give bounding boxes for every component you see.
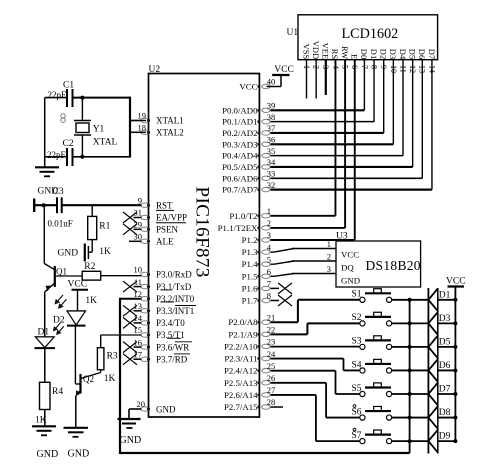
svg-text:D9: D9	[439, 432, 451, 442]
wire U2 P2.4/A12 to switch S5	[271, 370, 336, 372]
svg-text:D0: D0	[359, 49, 369, 59]
svg-text:GND: GND	[68, 449, 90, 460]
wire Q1 emitter to LED D1	[44, 292, 46, 337]
wire XTAL top net (C1/Y1 to XTAL1)	[45, 97, 66, 99]
U2 pin 4 P1.3	[262, 250, 270, 254]
decorative squiggle near crystal	[61, 114, 65, 118]
svg-text:VEE: VEE	[321, 43, 331, 60]
diode D6	[428, 359, 437, 370]
svg-text:D5: D5	[439, 337, 451, 347]
svg-text:2: 2	[327, 252, 331, 262]
svg-text:1: 1	[327, 239, 331, 249]
wire LCD pin 2 VDD stub	[315, 60, 317, 99]
svg-text:40: 40	[267, 77, 276, 87]
svg-text:17: 17	[134, 349, 143, 359]
D1 emitter arrows	[54, 323, 60, 330]
D2 receiver arrows	[56, 295, 63, 303]
svg-text:P2.6/A14: P2.6/A14	[224, 390, 258, 400]
op-amp U2 PIC16F873 microcontroller body	[149, 74, 260, 418]
node RST junction	[42, 203, 46, 207]
wire U2 P0.7/AD7 to LCD D7	[271, 189, 432, 191]
svg-text:33: 33	[267, 168, 276, 178]
svg-text:1K: 1K	[85, 296, 97, 306]
svg-text:23: 23	[267, 337, 276, 347]
svg-text:P1.4: P1.4	[242, 259, 258, 269]
U2 pin 23 P2.2/A10	[262, 344, 270, 348]
U2 pin 10 P3.0/RxD	[141, 272, 149, 276]
svg-text:30: 30	[134, 232, 143, 242]
ground GND at pin 20	[118, 418, 141, 420]
wire R4 to ground	[44, 410, 46, 427]
svg-text:18: 18	[138, 123, 147, 133]
U2 pin 1 P1.0/T2	[262, 214, 270, 218]
svg-text:P3.3/INT1: P3.3/INT1	[156, 306, 194, 316]
svg-text:0.01uF: 0.01uF	[48, 218, 73, 228]
svg-text:EA/VPP: EA/VPP	[156, 213, 187, 223]
svg-text:7: 7	[267, 279, 271, 289]
svg-text:37: 37	[267, 123, 276, 133]
U2 pin 36 P0.3/AD3	[262, 142, 270, 146]
svg-text:C3: C3	[53, 187, 64, 197]
wire U2 P1.3 to DS18B20 pin 1	[271, 251, 275, 253]
svg-text:P0.1/AD1: P0.1/AD1	[222, 117, 257, 127]
U2 pin 37 P0.2/AD2	[262, 131, 270, 135]
wire Q1 base to R2	[55, 275, 82, 277]
U2 pin 27 P2.6/A14	[262, 393, 270, 397]
svg-text:XTAL: XTAL	[93, 137, 118, 147]
U2 pin 22 P2.1/A9	[262, 332, 270, 336]
wire U2 P0.2/AD2 to LCD D2	[271, 132, 384, 134]
svg-text:16: 16	[134, 337, 143, 347]
svg-text:21: 21	[267, 312, 276, 322]
diode D1	[428, 289, 437, 300]
wire LCD E to U2 P1.2	[354, 60, 356, 240]
svg-text:24: 24	[267, 349, 276, 359]
svg-text:VCC: VCC	[239, 82, 257, 92]
ground GND under R4	[32, 425, 56, 427]
svg-text:34: 34	[267, 157, 276, 167]
svg-text:GND: GND	[341, 276, 360, 286]
power VCC at U2 pin 40	[267, 86, 282, 88]
wire U2 P0.4/AD4 to LCD D4	[271, 155, 404, 157]
svg-text:P0.6/AD6: P0.6/AD6	[222, 173, 258, 183]
U2 pin 18 XTAL2	[141, 130, 149, 134]
wire Q1 collector to RST net	[43, 205, 45, 263]
node crystal top junction	[80, 96, 84, 100]
wire LCD RS to U2 P1.0	[334, 60, 336, 216]
svg-text:5: 5	[267, 254, 271, 264]
capacitor C1	[66, 89, 68, 107]
svg-text:1K: 1K	[99, 247, 111, 257]
svg-text:C2: C2	[63, 139, 74, 149]
svg-text:35: 35	[267, 146, 276, 156]
wire U2 P2.0/A8 to switch S1	[271, 321, 298, 323]
wire U2 P0.3/AD3 to LCD D3	[271, 143, 394, 145]
svg-text:D4: D4	[398, 49, 408, 60]
svg-text:20: 20	[137, 399, 146, 409]
svg-text:R3: R3	[107, 352, 118, 362]
svg-text:P3.6/WR: P3.6/WR	[156, 342, 189, 352]
svg-text:Q1: Q1	[56, 267, 67, 277]
svg-text:19: 19	[138, 111, 147, 121]
U2 pin 24 P2.3/A11	[262, 356, 270, 360]
svg-text:P0.7/AD7: P0.7/AD7	[222, 185, 258, 195]
svg-text:3: 3	[267, 230, 271, 240]
svg-text:8: 8	[267, 291, 271, 301]
svg-text:10: 10	[134, 265, 143, 275]
svg-text:25: 25	[267, 361, 276, 371]
svg-text:12: 12	[134, 289, 143, 299]
wire diode anode base line	[437, 288, 439, 454]
svg-text:XTAL2: XTAL2	[156, 128, 184, 138]
svg-text:VDD: VDD	[311, 41, 321, 59]
svg-text:39: 39	[267, 101, 276, 111]
svg-text:VCC: VCC	[446, 277, 466, 287]
svg-text:6: 6	[267, 267, 271, 277]
diode D8	[428, 406, 437, 417]
svg-text:P2.3/A11: P2.3/A11	[224, 354, 257, 364]
wire U2 P2.1/A9 to switch S2	[271, 333, 308, 335]
U2 pin 21 P2.0/A8	[262, 320, 270, 324]
svg-text:D1: D1	[439, 290, 451, 300]
svg-text:38: 38	[267, 112, 276, 122]
U2 pin 17 P3.7/RD	[141, 357, 149, 361]
svg-text:DQ: DQ	[341, 263, 354, 273]
wire U2 P0.6/AD6 to LCD D6	[271, 177, 423, 179]
svg-text:P1.2: P1.2	[242, 235, 258, 245]
svg-text:P2.1/A9: P2.1/A9	[228, 329, 258, 339]
svg-text:R4: R4	[52, 387, 63, 397]
svg-text:P0.3/AD3: P0.3/AD3	[222, 139, 258, 149]
svg-text:XTAL1: XTAL1	[156, 116, 184, 126]
svg-text:VCC: VCC	[341, 250, 359, 260]
svg-text:RST: RST	[156, 200, 173, 210]
U2 pin 16 P3.6/WR	[141, 345, 149, 349]
svg-text:P0.5/AD5: P0.5/AD5	[222, 162, 258, 172]
svg-text:C1: C1	[63, 81, 74, 91]
resistor R4	[40, 382, 51, 409]
svg-text:RS: RS	[330, 49, 340, 60]
wire U2 P1.5 to DS18B20 pin 3	[271, 275, 275, 277]
svg-text:14: 14	[134, 313, 143, 323]
U2 pin 13 P3.3/INT1	[141, 309, 149, 313]
wire U2 P2.3/A11 to switch S4	[271, 358, 344, 360]
svg-text:P1.1/T2EX: P1.1/T2EX	[218, 223, 258, 233]
wire LCD pin 1 VSS stub	[306, 60, 308, 99]
capacitor C2	[66, 148, 68, 166]
svg-text:R2: R2	[84, 262, 95, 272]
wire LCD RW to U2 P1.1	[344, 60, 346, 228]
svg-text:ALE: ALE	[156, 237, 174, 247]
svg-text:R1: R1	[99, 222, 110, 232]
svg-text:P1.6: P1.6	[242, 283, 258, 293]
U2 pin 12 P3.2/INT0	[141, 297, 149, 301]
svg-text:26: 26	[267, 373, 276, 383]
wire LCD pin 3 VEE stub	[325, 60, 327, 95]
svg-text:E: E	[350, 54, 360, 59]
svg-text:P2.7/A15: P2.7/A15	[224, 402, 258, 412]
U2 pin 25 P2.4/A12	[262, 368, 270, 372]
transistor Q1	[54, 266, 56, 287]
svg-text:Y1: Y1	[93, 125, 105, 135]
svg-text:D3: D3	[388, 49, 398, 59]
diode D5	[428, 336, 437, 347]
wire switch common bus	[409, 300, 411, 453]
svg-text:P3.4/T0: P3.4/T0	[156, 318, 185, 328]
svg-text:P1.5: P1.5	[242, 271, 258, 281]
svg-text:D6: D6	[417, 49, 427, 59]
svg-text:D7: D7	[427, 49, 437, 59]
wire end terminal bar	[33, 199, 35, 213]
svg-text:3: 3	[327, 264, 331, 274]
svg-text:D8: D8	[439, 408, 451, 418]
U2 pin 5 P1.4	[262, 262, 270, 266]
svg-text:LCD1602: LCD1602	[342, 26, 399, 42]
svg-text:32: 32	[267, 180, 276, 190]
resistor R1	[91, 205, 93, 216]
svg-text:P0.0/AD0: P0.0/AD0	[222, 105, 258, 115]
svg-text:PIC16F873: PIC16F873	[192, 187, 213, 278]
crystal Y1	[81, 98, 83, 121]
wire U2 P2.2/A10 to switch S3	[271, 346, 360, 348]
svg-text:PSEN: PSEN	[156, 225, 179, 235]
U2 pin 14 P3.4/T0	[141, 321, 149, 325]
U2 pin 6 P1.5	[262, 274, 270, 278]
svg-text:P3.0/RxD: P3.0/RxD	[156, 270, 192, 280]
U2 pin 35 P0.4/AD4	[262, 153, 270, 157]
svg-text:D2: D2	[379, 49, 389, 59]
diode D3	[428, 312, 437, 323]
U2 pin 32 P0.7/AD7	[262, 187, 270, 191]
wire pin 20 to ground	[129, 408, 142, 410]
svg-text:22pF: 22pF	[47, 150, 66, 160]
U2 pin 11 P3.1/TxD	[141, 284, 149, 288]
node crystal bottom junction	[80, 155, 84, 159]
svg-text:D1: D1	[38, 328, 50, 338]
svg-text:P2.0/A8: P2.0/A8	[228, 317, 258, 327]
resistor R2	[82, 271, 101, 280]
wire XTAL bottom net (C2/Y1 to XTAL2)	[45, 156, 66, 158]
LED D1	[35, 336, 54, 338]
svg-text:U3: U3	[336, 232, 348, 242]
svg-text:29: 29	[134, 220, 143, 230]
U2 pin 38 P0.1/AD1	[262, 119, 270, 123]
U2 pin 20 GND	[141, 407, 149, 411]
svg-text:D7: D7	[439, 385, 451, 395]
svg-text:D1: D1	[369, 49, 379, 59]
wire U2 P1.4 to DS18B20 pin 2	[271, 263, 275, 265]
op-amp U1 LCD1602 display body	[298, 15, 438, 60]
op-amp U3 DS18B20 sensor body	[336, 241, 421, 287]
svg-text:P3.7/RD: P3.7/RD	[156, 354, 188, 364]
svg-text:U2: U2	[149, 65, 161, 75]
capacitor C3	[56, 197, 58, 213]
svg-text:28: 28	[267, 397, 276, 407]
diode D9	[428, 430, 437, 441]
wire U2 P2.6/A14 to switch S7	[271, 394, 316, 396]
U2 pin 9 RST	[141, 203, 149, 207]
svg-text:22: 22	[267, 325, 276, 335]
svg-text:4: 4	[267, 242, 272, 252]
svg-text:VSS: VSS	[301, 44, 311, 60]
svg-text:31: 31	[134, 208, 143, 218]
wire P3.2 to bottom bus	[120, 298, 142, 300]
wire D1 to R4	[44, 348, 46, 382]
ground crystal GND symbol	[44, 166, 46, 169]
wire U2 P2.5/A13 to switch S6	[271, 382, 327, 384]
svg-text:D5: D5	[407, 49, 417, 59]
wire U2 P0.1/AD1 to LCD D1	[271, 121, 375, 123]
svg-text:2: 2	[267, 218, 271, 228]
svg-text:D3: D3	[439, 314, 451, 324]
U2 pin 15 P3.5/T1	[141, 333, 149, 337]
svg-text:9: 9	[138, 195, 142, 205]
U2 pin 19 XTAL1	[141, 118, 149, 122]
U2 pin 31 EA/VPP	[141, 215, 149, 219]
ground GND bars near R1	[84, 244, 86, 262]
wire RST net to pin 9	[34, 204, 56, 206]
U2 pin 28 P2.7/A15	[262, 405, 270, 409]
U2 pin 30 ALE	[141, 239, 149, 243]
U2 pin 40 VCC	[262, 84, 270, 88]
svg-text:Q2: Q2	[83, 374, 94, 384]
transistor Q2	[79, 374, 81, 394]
U2 pin 29 PSEN	[141, 227, 149, 231]
svg-text:22pF: 22pF	[48, 90, 67, 100]
svg-text:DS18B20: DS18B20	[366, 258, 421, 273]
wire R2 to pin 10 P3.0	[101, 275, 142, 277]
svg-text:GND: GND	[156, 404, 176, 414]
wire U2 P0.5/AD5 to LCD D5	[271, 166, 413, 168]
svg-text:15: 15	[134, 325, 143, 335]
U2 pin 3 P1.2	[262, 238, 270, 242]
svg-text:1K: 1K	[104, 374, 116, 384]
svg-text:GND: GND	[37, 449, 59, 460]
U2 pin 2 P1.1/T2EX	[262, 226, 270, 230]
LED D2	[67, 310, 86, 312]
svg-text:P1.7: P1.7	[242, 296, 258, 306]
ground GND under Q2	[64, 427, 89, 429]
svg-text:P1.3: P1.3	[242, 247, 258, 257]
U2 pin 34 P0.5/AD5	[262, 165, 270, 169]
wire left vertical (C1/C2 to GND)	[44, 98, 46, 167]
svg-text:D6: D6	[439, 361, 451, 371]
wire U2 P0.0/AD0 to LCD D0	[271, 109, 365, 111]
svg-text:P2.2/A10: P2.2/A10	[224, 341, 258, 351]
svg-text:RW: RW	[340, 46, 350, 59]
U2 pin 7 P1.6	[262, 286, 270, 290]
svg-text:P2.4/A12: P2.4/A12	[224, 366, 257, 376]
wire R3 to pin 15 P3.5	[101, 334, 142, 336]
svg-text:VCC: VCC	[274, 65, 294, 75]
svg-text:27: 27	[267, 385, 276, 395]
svg-text:U1: U1	[287, 28, 299, 38]
wire D2 cathode to Q2 base	[74, 326, 76, 384]
wire diode cathode bus line	[427, 288, 429, 454]
resistor R3	[100, 335, 102, 348]
svg-text:13: 13	[134, 301, 143, 311]
diode D7	[428, 383, 437, 394]
svg-text:GND: GND	[120, 435, 142, 446]
svg-text:11: 11	[134, 277, 142, 287]
U2 pin 39 P0.0/AD0	[262, 108, 270, 112]
svg-text:36: 36	[267, 134, 276, 144]
U2 pin 33 P0.6/AD6	[262, 176, 270, 180]
svg-text:VCC: VCC	[68, 279, 88, 289]
wire Q2 emitter to ground	[75, 396, 77, 428]
svg-text:GND: GND	[58, 249, 79, 259]
svg-text:1: 1	[267, 206, 271, 216]
U2 pin 8 P1.7	[262, 298, 270, 302]
svg-text:P0.2/AD2: P0.2/AD2	[222, 128, 257, 138]
svg-text:P2.5/A13: P2.5/A13	[224, 378, 258, 388]
svg-text:P1.0/T2: P1.0/T2	[229, 211, 257, 221]
U2 pin 26 P2.5/A13	[262, 381, 270, 385]
svg-text:P0.4/AD4: P0.4/AD4	[222, 151, 258, 161]
